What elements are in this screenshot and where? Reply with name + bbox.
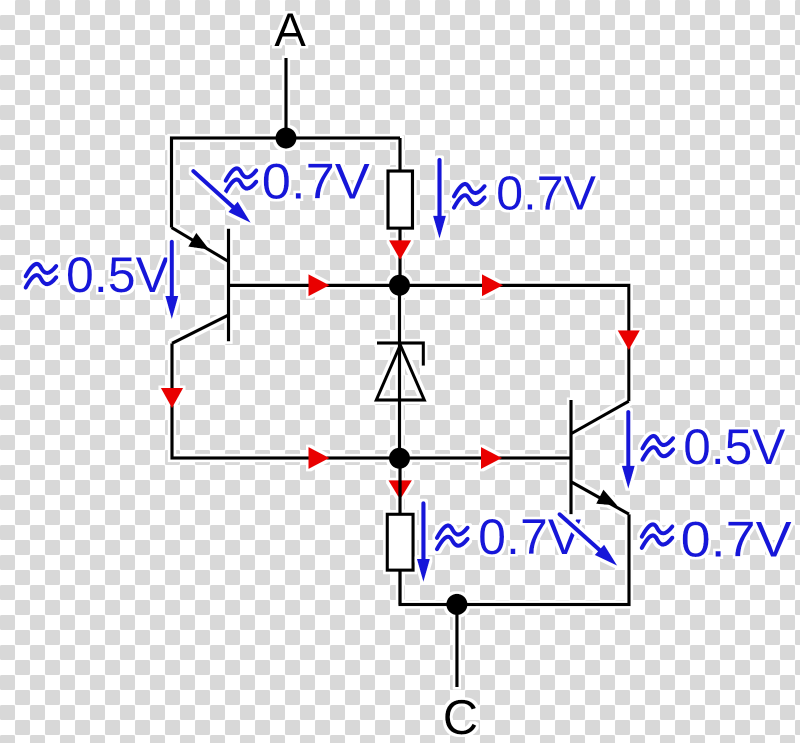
current arrow red upper rail right (482, 274, 503, 296)
transistor Q1 base bar (227, 229, 230, 342)
annotation approx symbol bottom-middle (437, 526, 468, 550)
transistor Q1 collector line (172, 315, 229, 343)
wire bottom rail left segment (398, 570, 401, 605)
resistor R1 body (388, 171, 413, 228)
diode D1 lead (398, 285, 401, 458)
svg-text:0.7V: 0.7V (496, 167, 596, 220)
current arrow red upper rail left (309, 274, 330, 296)
wire C terminal (455, 605, 458, 688)
annotation arrow blue right 0.5V (626, 412, 630, 466)
terminal A label (286, 24, 293, 35)
wire left collector drop and lower rail (172, 343, 571, 458)
resistor R2 body (387, 514, 413, 570)
wire top rail and left drop (172, 138, 401, 228)
annotation approx symbol right 0.5V (643, 436, 674, 460)
diode D1 cathode bar with hook (377, 343, 423, 366)
svg-text:0.5V: 0.5V (66, 247, 170, 303)
annotation arrow blue diagonal Q2 (560, 514, 600, 550)
transistor Q1 emitter arrow (PNP) (188, 233, 209, 250)
annotation arrow blue R1 drop (437, 160, 441, 216)
resistor R2 top lead (398, 458, 401, 515)
svg-text:C: C (443, 691, 478, 743)
annotation text 0.5V left (73, 261, 86, 287)
transistor Q2 collector line (572, 401, 629, 433)
transistor Q2 emitter line (572, 482, 630, 514)
svg-text:0.7V: 0.7V (262, 154, 371, 210)
wire base rail upper and right drop (230, 285, 629, 401)
current arrow red right collector drop (618, 330, 640, 350)
current arrow red lower rail left (309, 447, 330, 469)
node lower junction dot (389, 448, 410, 469)
diode D1 triangle (376, 345, 424, 400)
annotation approx symbol top-left (226, 168, 257, 192)
annotation text 0.5V right (691, 433, 704, 459)
current arrow red below lower node (388, 480, 412, 500)
resistor R2 bottom lead (398, 569, 401, 605)
transistor Q2 emitter arrow (NPN) (596, 490, 617, 506)
annotation approx symbol bottom-right (642, 524, 673, 548)
annotation text 0.7V bottom-middle (486, 523, 499, 549)
svg-text:0.7V: 0.7V (681, 511, 793, 567)
current arrow red left drop (161, 388, 183, 408)
node C junction dot (446, 594, 467, 615)
annotation approx symbol left (26, 264, 57, 288)
annotation arrow blue left 0.5V (170, 242, 174, 296)
node upper junction dot (389, 275, 410, 296)
wire A terminal (284, 58, 287, 138)
transistor Q1 emitter line (172, 228, 229, 262)
resistor R1 top lead (398, 138, 401, 172)
current arrow red lower rail right (481, 447, 502, 469)
node A junction dot (275, 127, 296, 148)
annotation approx symbol top-right (454, 184, 485, 208)
annotation text 0.7V bottom-right (689, 525, 703, 551)
svg-text:A: A (274, 4, 306, 57)
resistor R1 bottom lead (398, 227, 401, 285)
annotation text 0.7V top-right small (503, 179, 516, 204)
annotation arrow blue R2 drop (421, 503, 425, 559)
annotation text 0.7V top-left (270, 167, 283, 193)
svg-text:0.5V: 0.5V (683, 419, 786, 475)
transistor Q2 base bar (569, 400, 572, 514)
annotation arrow blue diagonal Q1 (193, 171, 233, 207)
svg-text:0.7V: 0.7V (478, 509, 582, 565)
current arrow red below R1 (389, 240, 411, 260)
wire right emitter drop and bottom rail (398, 514, 629, 604)
